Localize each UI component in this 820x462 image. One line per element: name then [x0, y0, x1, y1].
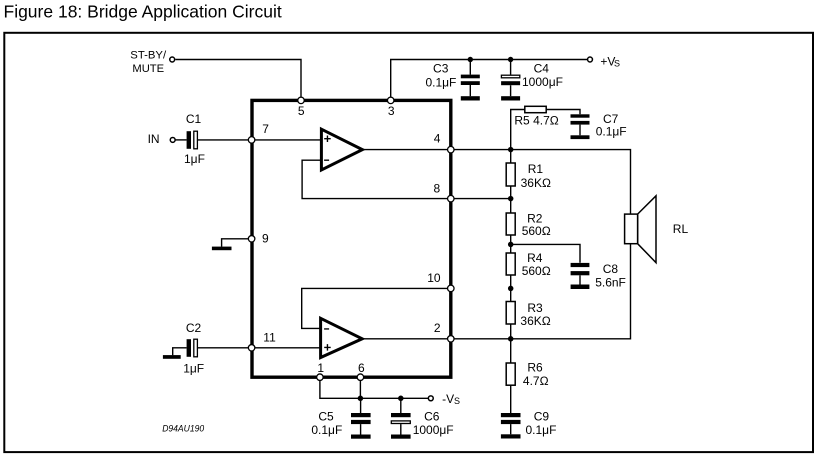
junction pin 10 node / R4-R3: [508, 286, 514, 292]
junction C5 on -Vs rail: [358, 396, 364, 402]
svg-text:-V: -V: [442, 392, 454, 406]
svg-text:C3: C3: [433, 62, 449, 76]
capacitor C3: [425, 60, 479, 101]
svg-text:9: 9: [262, 232, 269, 246]
pin 9: [248, 232, 269, 246]
svg-text:1: 1: [317, 361, 324, 375]
svg-text:D94AU190: D94AU190: [162, 424, 205, 435]
junction pin 2 node / R3-R6: [508, 336, 514, 342]
wire pin 8 row to R1/R2 node: [451, 198, 511, 200]
svg-text:C9: C9: [534, 410, 550, 424]
svg-text:560Ω: 560Ω: [522, 224, 551, 238]
svg-text:IN: IN: [148, 132, 160, 146]
svg-text:C1: C1: [186, 112, 202, 126]
pin 2: [434, 321, 454, 342]
wire feedback A1 to pin 8: [302, 160, 451, 198]
svg-text:4: 4: [434, 132, 441, 146]
svg-text:10: 10: [427, 271, 441, 285]
svg-text:S: S: [614, 58, 620, 68]
capacitor C5: [311, 398, 370, 438]
pin 1: [317, 361, 325, 381]
svg-text:560Ω: 560Ω: [522, 264, 551, 278]
pin 3: [387, 97, 394, 118]
terminal +Vs: [588, 54, 620, 68]
terminal -Vs: [428, 392, 460, 406]
junction pin 4 node / R1 top: [508, 147, 514, 153]
wire +Vs rail from pin 3: [391, 60, 588, 101]
junction C4 on +Vs rail: [508, 57, 513, 62]
capacitor C2: [183, 321, 204, 375]
wire IN to C1: [175, 139, 186, 141]
svg-text:5.6nF: 5.6nF: [595, 275, 626, 289]
ground near pin 9: [212, 239, 252, 250]
svg-text:1000μF: 1000μF: [522, 75, 563, 89]
svg-text:3: 3: [388, 104, 395, 118]
IC U1 body: [252, 100, 451, 377]
wire C8 tap from R2/R4 node: [511, 244, 580, 262]
wire C1 to op-amp A1 + input (pin 7): [198, 139, 322, 141]
svg-text:C2: C2: [186, 321, 202, 335]
svg-text:S: S: [454, 396, 460, 406]
svg-text:RL: RL: [673, 222, 689, 236]
svg-text:0.1μF: 0.1μF: [526, 423, 557, 437]
pin 10: [427, 271, 454, 291]
svg-text:0.1μF: 0.1μF: [596, 124, 627, 138]
wire C2 to op-amp A2 + input (pin 11): [198, 347, 321, 349]
svg-text:7: 7: [262, 122, 269, 136]
svg-text:R6: R6: [527, 361, 543, 375]
svg-text:11: 11: [263, 331, 276, 345]
svg-text:R4: R4: [527, 251, 543, 265]
svg-text:1μF: 1μF: [183, 361, 204, 375]
svg-text:C5: C5: [318, 410, 334, 424]
svg-text:Figure 18: Bridge Application: Figure 18: Bridge Application Circuit: [4, 1, 282, 21]
wire resistor chain column: [510, 150, 512, 413]
capacitor C9: [501, 410, 557, 439]
svg-text:0.1μF: 0.1μF: [311, 423, 342, 437]
svg-text:MUTE: MUTE: [132, 63, 164, 75]
pin 5: [298, 97, 305, 118]
svg-text:6: 6: [358, 361, 365, 375]
pin 8: [434, 182, 455, 202]
speaker RL: [625, 196, 689, 263]
junction R2-R4 / C8 tap: [508, 242, 514, 248]
capacitor C4 (electrolytic): [501, 60, 563, 101]
resistor R3: [506, 301, 551, 328]
wire R5 branch: [511, 110, 580, 150]
svg-text:C4: C4: [534, 62, 550, 76]
wire ST-BY/MUTE to pin 5: [175, 60, 301, 101]
terminal IN: [148, 132, 176, 146]
junction C6 on -Vs rail: [398, 396, 404, 402]
junction C3 on +Vs rail: [468, 57, 473, 62]
svg-text:4.7Ω: 4.7Ω: [523, 374, 549, 388]
svg-text:36KΩ: 36KΩ: [520, 314, 550, 328]
svg-text:C6: C6: [424, 410, 440, 424]
resistor R1: [506, 162, 551, 190]
op-amp A2: [321, 318, 363, 357]
resistor R4: [506, 251, 551, 278]
junction pin 8 node / R1-R2: [508, 196, 514, 202]
svg-text:ST-BY/: ST-BY/: [130, 49, 167, 61]
svg-text:R3: R3: [527, 301, 543, 315]
svg-text:1000μF: 1000μF: [413, 423, 454, 437]
capacitor C6 (electrolytic): [391, 398, 454, 438]
wire pin 6 stub: [359, 377, 361, 398]
ground near C2: [163, 348, 187, 359]
terminal ST-BY/MUTE: [130, 49, 174, 75]
capacitor C8: [571, 262, 626, 290]
resistor R5: [514, 106, 558, 127]
resistor R6: [506, 361, 548, 388]
wire op-amp A1 output to pin 4 and speaker top: [362, 150, 630, 215]
pin 4: [434, 132, 454, 153]
resistor R2: [506, 211, 551, 238]
svg-text:1μF: 1μF: [184, 152, 205, 166]
capacitor C7: [571, 112, 627, 139]
op-amp A1: [321, 129, 362, 170]
svg-text:36KΩ: 36KΩ: [521, 176, 551, 190]
svg-text:C8: C8: [603, 262, 619, 276]
svg-text:0.1μF: 0.1μF: [425, 75, 456, 89]
wire bottom -Vs rail from pin 1: [320, 377, 428, 398]
svg-text:R1: R1: [528, 162, 544, 176]
svg-text:8: 8: [434, 182, 441, 196]
svg-text:5: 5: [298, 104, 305, 118]
svg-text:R5 4.7Ω: R5 4.7Ω: [514, 114, 558, 128]
wire pin 10 row and feedback A2: [302, 288, 451, 328]
pin 7: [248, 122, 269, 143]
wire op-amp A2 output pin 2 row to speaker bottom: [362, 244, 630, 339]
capacitor C1: [184, 112, 205, 166]
pin 11: [248, 331, 276, 351]
svg-text:2: 2: [434, 321, 441, 335]
pin 6: [357, 361, 365, 381]
